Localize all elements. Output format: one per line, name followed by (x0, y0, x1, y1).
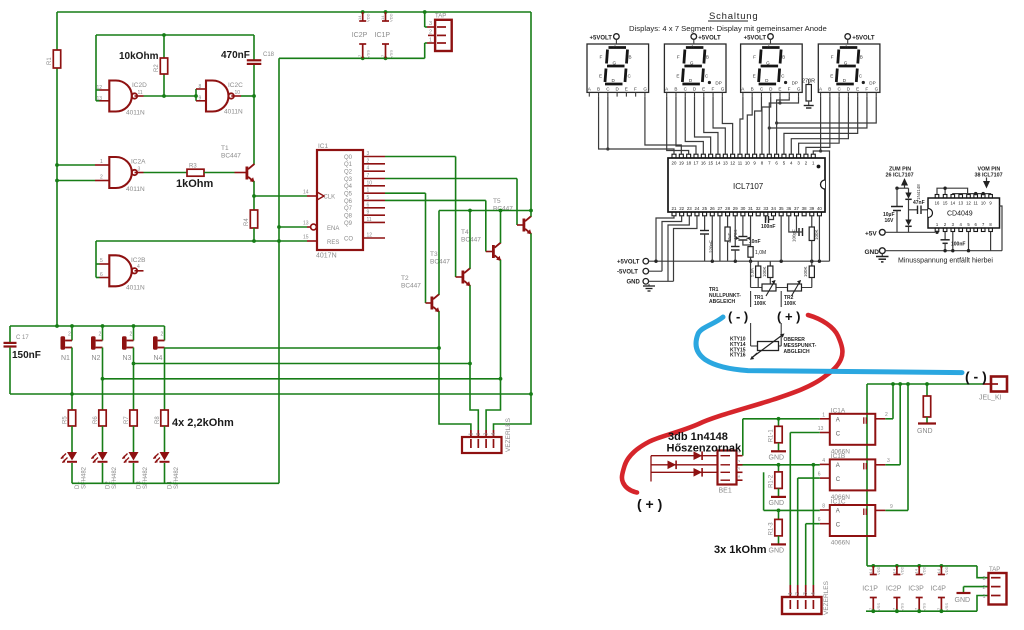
svg-text:GND: GND (769, 500, 785, 507)
svg-text:IC2D: IC2D (132, 82, 147, 89)
svg-text:N4: N4 (154, 355, 163, 362)
svg-text:N3: N3 (123, 355, 132, 362)
svg-text:B: B (674, 86, 677, 91)
svg-text:19: 19 (679, 161, 684, 166)
svg-text:1N4148: 1N4148 (916, 184, 921, 200)
svg-text:E: E (778, 86, 781, 91)
svg-text:VEZERLES: VEZERLES (505, 417, 512, 452)
svg-text:9: 9 (367, 210, 370, 216)
svg-text:6: 6 (818, 517, 821, 523)
svg-text:IC1P: IC1P (375, 32, 391, 39)
svg-text:F: F (753, 55, 756, 60)
svg-text:D4: D4 (168, 481, 174, 489)
svg-text:KTY16: KTY16 (730, 353, 746, 359)
svg-text:B: B (597, 86, 600, 91)
svg-text:1: 1 (100, 159, 103, 165)
svg-text:E: E (676, 74, 679, 79)
svg-text:IC1P: IC1P (862, 586, 878, 593)
svg-text:1: 1 (983, 594, 986, 600)
svg-text:VSS: VSS (922, 603, 927, 611)
svg-text:SFH482: SFH482 (143, 466, 149, 489)
svg-text:IC2A: IC2A (131, 159, 146, 166)
svg-text:3: 3 (887, 458, 890, 464)
svg-text:14: 14 (380, 15, 385, 20)
svg-text:C18: C18 (263, 52, 275, 58)
svg-text:37: 37 (794, 206, 799, 211)
svg-text:4x 2,2kOhm: 4x 2,2kOhm (172, 417, 234, 429)
svg-text:16: 16 (935, 201, 940, 206)
svg-text:10kOhm: 10kOhm (119, 51, 159, 62)
svg-text:28: 28 (725, 206, 730, 211)
svg-text:2: 2 (99, 332, 102, 338)
svg-text:VDD: VDD (366, 13, 371, 22)
svg-text:Q5: Q5 (344, 191, 353, 197)
svg-text:C: C (836, 431, 841, 437)
svg-text:N1: N1 (61, 355, 70, 362)
svg-text:IC1C: IC1C (831, 499, 846, 506)
svg-text:IC1A: IC1A (831, 407, 846, 414)
svg-text:F: F (865, 86, 868, 91)
svg-text:BC447: BC447 (430, 259, 450, 266)
svg-text:12: 12 (730, 161, 735, 166)
svg-text:R8: R8 (155, 416, 161, 424)
svg-text:G: G (690, 61, 694, 66)
svg-text:Q0: Q0 (344, 155, 353, 161)
svg-text:F: F (634, 86, 637, 91)
svg-text:R5: R5 (63, 416, 69, 424)
svg-text:8: 8 (199, 84, 202, 90)
svg-text:100nF: 100nF (761, 224, 775, 230)
svg-text:E: E (702, 86, 705, 91)
svg-text:F: F (711, 86, 714, 91)
svg-text:3db 1n4148: 3db 1n4148 (668, 431, 728, 443)
svg-text:Displays: 4 x 7 Segment- Disp: Displays: 4 x 7 Segment- Display mit gem… (629, 24, 827, 33)
svg-text:VSS: VSS (366, 50, 371, 58)
svg-text:SFH482: SFH482 (82, 466, 88, 489)
svg-text:TAP: TAP (435, 14, 446, 20)
svg-text:14: 14 (357, 15, 362, 20)
svg-text:D2: D2 (106, 481, 112, 489)
svg-text:BC447: BC447 (493, 206, 513, 213)
svg-text:35: 35 (779, 206, 784, 211)
svg-text:VDD: VDD (899, 566, 904, 575)
svg-text:14: 14 (868, 568, 873, 573)
svg-text:R7: R7 (124, 416, 130, 424)
svg-text:Minusspannung entfällt hierbei: Minusspannung entfällt hierbei (898, 258, 993, 265)
svg-text:13: 13 (818, 426, 824, 432)
svg-text:F: F (788, 86, 791, 91)
svg-text:470nF: 470nF (221, 50, 250, 61)
svg-text:CLK: CLK (324, 195, 336, 201)
svg-text:B: B (751, 86, 754, 91)
svg-text:T3: T3 (430, 251, 438, 258)
svg-text:3: 3 (484, 433, 490, 436)
svg-text:C: C (836, 477, 841, 483)
svg-text:100K: 100K (803, 266, 808, 277)
svg-text:B: B (706, 55, 709, 60)
svg-text:E: E (753, 74, 756, 79)
svg-text:14: 14 (950, 201, 955, 206)
svg-text:11: 11 (974, 201, 979, 206)
svg-text:T4: T4 (461, 229, 469, 236)
svg-text:30: 30 (740, 206, 745, 211)
svg-text:GND: GND (917, 428, 933, 435)
svg-text:3: 3 (803, 592, 809, 595)
svg-text:Q9: Q9 (344, 221, 353, 227)
svg-text:8: 8 (822, 504, 825, 510)
svg-text:G: G (766, 61, 770, 66)
svg-text:6: 6 (818, 472, 821, 478)
svg-text:D3: D3 (137, 481, 143, 489)
svg-text:16: 16 (701, 161, 706, 166)
svg-text:( - ): ( - ) (965, 369, 987, 385)
svg-text:12: 12 (367, 233, 373, 239)
svg-text:GND: GND (769, 547, 785, 554)
svg-text:GND: GND (865, 249, 880, 256)
svg-text:5: 5 (100, 258, 103, 264)
svg-text:BC447: BC447 (221, 153, 241, 160)
svg-text:3: 3 (138, 167, 141, 173)
svg-text:15: 15 (708, 161, 713, 166)
svg-text:14: 14 (891, 568, 896, 573)
svg-text:4: 4 (491, 433, 497, 436)
svg-text:9: 9 (199, 96, 202, 102)
svg-text:-5VOLT: -5VOLT (617, 269, 638, 275)
svg-text:IC4P: IC4P (930, 586, 946, 593)
svg-text:4011N: 4011N (126, 285, 145, 292)
svg-text:A: A (836, 509, 840, 515)
svg-text:VSS: VSS (899, 603, 904, 611)
svg-text:13: 13 (723, 161, 728, 166)
svg-text:Q6: Q6 (344, 199, 353, 205)
svg-text:2: 2 (429, 30, 432, 36)
svg-text:3: 3 (367, 151, 370, 157)
svg-text:2: 2 (130, 332, 133, 338)
svg-text:+5V: +5V (865, 231, 877, 238)
svg-text:Hőszenzornak: Hőszenzornak (667, 443, 742, 455)
svg-text:2: 2 (367, 158, 370, 164)
svg-text:BE1: BE1 (719, 488, 732, 495)
svg-text:+5VOLT: +5VOLT (617, 259, 640, 265)
svg-text:25: 25 (702, 206, 707, 211)
svg-text:+5VOLT: +5VOLT (852, 35, 875, 41)
svg-text:ABGLEICH: ABGLEICH (709, 299, 736, 305)
svg-text:VSS: VSS (876, 603, 881, 611)
svg-text:G: G (613, 61, 617, 66)
svg-text:R1-3: R1-3 (769, 522, 775, 536)
svg-text:G: G (797, 86, 801, 91)
svg-text:32: 32 (756, 206, 761, 211)
svg-text:E: E (599, 74, 602, 79)
svg-text:2: 2 (100, 175, 103, 181)
svg-text:DP: DP (792, 81, 798, 86)
svg-text:11: 11 (138, 90, 143, 96)
svg-text:4: 4 (367, 166, 370, 172)
svg-text:R2: R2 (154, 64, 160, 72)
svg-text:6: 6 (367, 202, 370, 208)
svg-text:R1: R1 (47, 57, 53, 65)
svg-text:IC1B: IC1B (831, 453, 845, 460)
svg-text:B: B (629, 55, 632, 60)
svg-text:GND: GND (769, 454, 785, 461)
svg-text:24: 24 (695, 206, 700, 211)
svg-text:R4: R4 (244, 218, 250, 226)
svg-text:1: 1 (788, 592, 794, 595)
svg-text:VDD: VDD (876, 566, 881, 575)
svg-text:+5VOLT: +5VOLT (698, 35, 721, 41)
svg-text:RES: RES (327, 240, 339, 246)
svg-text:33: 33 (763, 206, 768, 211)
svg-text:IC2C: IC2C (228, 82, 243, 89)
svg-text:SFH482: SFH482 (112, 466, 118, 489)
svg-text:B: B (860, 55, 863, 60)
svg-text:CO: CO (344, 236, 353, 242)
svg-text:A: A (836, 463, 840, 469)
svg-text:F: F (600, 55, 603, 60)
svg-text:34: 34 (771, 206, 776, 211)
svg-text:15: 15 (303, 235, 309, 241)
svg-text:16V: 16V (885, 218, 895, 224)
svg-text:17: 17 (694, 161, 699, 166)
svg-text:VEZERLES: VEZERLES (823, 580, 830, 615)
svg-text:5,6K: 5,6K (750, 268, 755, 277)
svg-text:4066N: 4066N (831, 540, 850, 547)
svg-text:G: G (643, 86, 647, 91)
svg-text:G: G (875, 86, 879, 91)
svg-text:Q4: Q4 (344, 184, 353, 190)
svg-text:R3: R3 (189, 164, 197, 170)
svg-text:47nF: 47nF (913, 200, 925, 206)
svg-text:9: 9 (890, 504, 893, 510)
svg-text:R1-2: R1-2 (769, 474, 775, 488)
svg-text:+5VOLT: +5VOLT (589, 35, 612, 41)
svg-text:B: B (782, 55, 785, 60)
svg-text:1,0M: 1,0M (755, 250, 766, 256)
svg-text:ENA: ENA (327, 226, 339, 232)
svg-text:D1: D1 (75, 481, 81, 489)
svg-text:GND: GND (627, 280, 641, 286)
svg-text:E: E (625, 86, 628, 91)
svg-text:R6: R6 (93, 416, 99, 424)
svg-text:4017N: 4017N (316, 253, 337, 260)
svg-text:5: 5 (367, 195, 370, 201)
svg-text:T5: T5 (493, 198, 501, 205)
svg-text:14: 14 (936, 568, 941, 573)
svg-text:2: 2 (983, 585, 986, 591)
svg-text:100nF: 100nF (951, 242, 965, 248)
svg-text:21: 21 (672, 206, 677, 211)
svg-text:IC2P: IC2P (886, 586, 902, 593)
svg-text:Q1: Q1 (344, 162, 353, 168)
svg-text:2: 2 (476, 433, 482, 436)
svg-text:6: 6 (100, 272, 103, 278)
svg-text:2: 2 (161, 332, 164, 338)
svg-text:150nF: 150nF (12, 350, 41, 361)
svg-text:38 ICL7107: 38 ICL7107 (975, 172, 1003, 178)
svg-text:14: 14 (716, 161, 721, 166)
svg-text:Schaltung: Schaltung (709, 11, 758, 22)
svg-text:23: 23 (687, 206, 692, 211)
svg-text:Q8: Q8 (344, 213, 353, 219)
svg-text:4011N: 4011N (224, 109, 243, 116)
svg-text:100K: 100K (784, 301, 796, 307)
svg-text:ICL7107: ICL7107 (733, 182, 764, 191)
svg-text:+5VOLT: +5VOLT (744, 35, 767, 41)
svg-text:18: 18 (686, 161, 691, 166)
svg-text:22: 22 (679, 206, 684, 211)
svg-text:1: 1 (429, 38, 432, 44)
svg-text:10: 10 (745, 161, 750, 166)
svg-text:20: 20 (672, 161, 677, 166)
svg-text:IC3P: IC3P (908, 586, 924, 593)
svg-text:T1: T1 (221, 145, 229, 152)
svg-text:11: 11 (367, 217, 372, 223)
svg-text:7: 7 (367, 173, 370, 179)
svg-text:G: G (844, 61, 848, 66)
svg-text:39: 39 (809, 206, 814, 211)
svg-text:13: 13 (958, 201, 963, 206)
svg-text:Q2: Q2 (344, 169, 353, 175)
svg-text:13: 13 (97, 96, 103, 102)
svg-text:( - ): ( - ) (728, 309, 748, 324)
svg-text:IC1: IC1 (318, 143, 329, 150)
svg-text:E: E (856, 86, 859, 91)
svg-text:26 ICL7107: 26 ICL7107 (886, 172, 914, 178)
svg-text:40: 40 (817, 206, 822, 211)
svg-text:A: A (836, 417, 840, 423)
svg-text:Q7: Q7 (344, 206, 353, 212)
svg-text:GND: GND (955, 597, 971, 604)
svg-text:12: 12 (97, 85, 103, 91)
svg-text:T2: T2 (401, 275, 409, 282)
svg-text:R1-1: R1-1 (769, 429, 775, 443)
svg-text:100K: 100K (762, 266, 767, 277)
svg-text:BC447: BC447 (461, 237, 481, 244)
svg-text:1: 1 (822, 412, 825, 418)
svg-text:E: E (830, 74, 833, 79)
svg-text:2: 2 (795, 592, 801, 595)
svg-text:3: 3 (429, 21, 432, 27)
svg-text:C 17: C 17 (16, 335, 29, 341)
svg-text:100K: 100K (814, 229, 819, 240)
svg-text:2: 2 (68, 332, 71, 338)
svg-text:1: 1 (367, 188, 370, 194)
svg-text:14: 14 (303, 190, 309, 196)
svg-text:15: 15 (943, 201, 948, 206)
svg-text:100pF: 100pF (792, 229, 797, 242)
svg-text:12: 12 (966, 201, 971, 206)
svg-text:11: 11 (738, 161, 743, 166)
svg-text:F: F (677, 55, 680, 60)
svg-text:( + ): ( + ) (777, 309, 800, 324)
svg-text:10: 10 (981, 201, 986, 206)
svg-text:( + ): ( + ) (637, 496, 662, 512)
svg-text:4011N: 4011N (126, 110, 145, 117)
svg-text:27: 27 (717, 206, 722, 211)
svg-text:1: 1 (468, 433, 474, 436)
svg-text:36: 36 (786, 206, 791, 211)
svg-text:47uF: 47uF (727, 232, 732, 243)
svg-text:G: G (721, 86, 725, 91)
svg-text:C: C (836, 523, 841, 529)
svg-text:DP: DP (715, 81, 721, 86)
svg-text:N2: N2 (92, 355, 101, 362)
svg-text:CD4049: CD4049 (947, 211, 973, 218)
svg-text:29: 29 (733, 206, 738, 211)
svg-text:4: 4 (822, 458, 825, 464)
svg-text:VSS: VSS (944, 603, 949, 611)
svg-text:IC2P: IC2P (352, 32, 368, 39)
svg-text:VDD: VDD (922, 566, 927, 575)
svg-text:VSS: VSS (389, 50, 394, 58)
svg-text:ABGLEICH: ABGLEICH (784, 349, 811, 355)
svg-text:DP: DP (869, 81, 875, 86)
svg-text:31: 31 (748, 206, 753, 211)
svg-text:4011N: 4011N (126, 186, 145, 193)
svg-text:13: 13 (303, 221, 309, 227)
svg-text:TAP: TAP (989, 567, 1000, 573)
svg-text:4: 4 (811, 592, 817, 595)
svg-text:14: 14 (914, 568, 919, 573)
svg-text:B: B (828, 86, 831, 91)
svg-text:3: 3 (983, 576, 986, 582)
svg-text:38: 38 (802, 206, 807, 211)
svg-text:VDD: VDD (389, 13, 394, 22)
svg-text:IC2B: IC2B (131, 257, 145, 264)
svg-text:10: 10 (367, 180, 373, 186)
svg-text:SFH482: SFH482 (174, 466, 180, 489)
svg-text:VDD: VDD (944, 566, 949, 575)
svg-text:BC447: BC447 (401, 283, 421, 290)
svg-text:Q3: Q3 (344, 177, 353, 183)
svg-text:10: 10 (235, 90, 241, 96)
svg-text:4: 4 (137, 264, 140, 270)
svg-text:26: 26 (710, 206, 715, 211)
svg-text:100K: 100K (754, 301, 766, 307)
svg-text:3x 1kOhm: 3x 1kOhm (714, 544, 767, 556)
svg-text:JEL_KI: JEL_KI (979, 395, 1002, 402)
svg-text:2: 2 (885, 412, 888, 418)
svg-text:F: F (831, 55, 834, 60)
svg-text:1kOhm: 1kOhm (176, 178, 214, 190)
